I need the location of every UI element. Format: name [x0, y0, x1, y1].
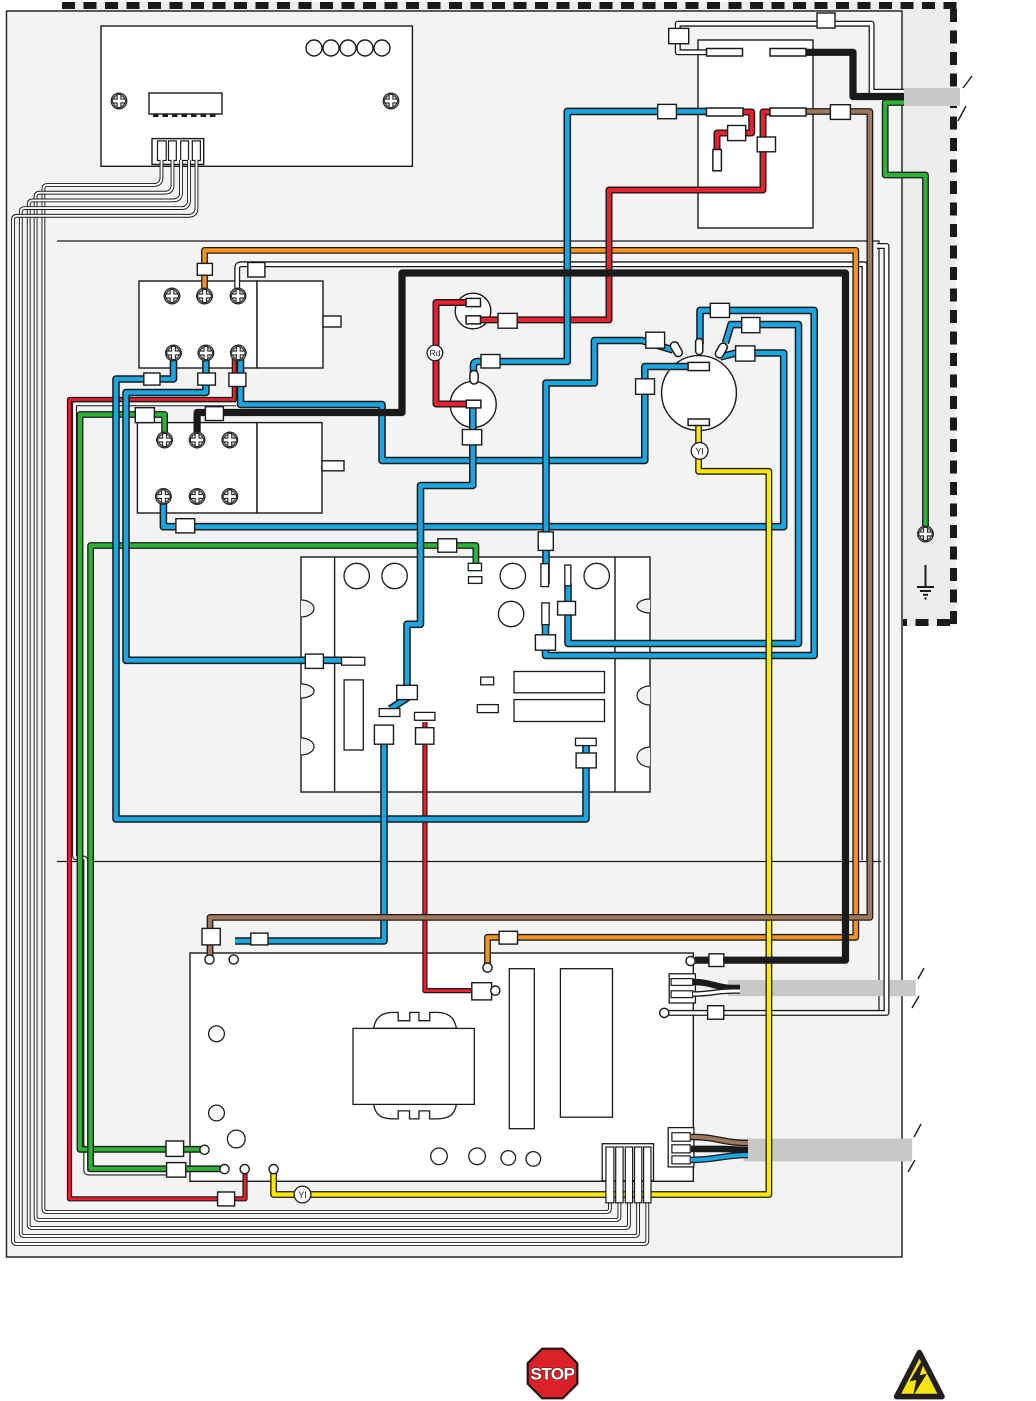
display connector J1 [149, 93, 222, 114]
wire black line cord to interlock [806, 52, 906, 96]
finger slot 2 [616, 1147, 623, 1203]
relay block K2 tab [322, 461, 344, 471]
finger slot 4 [635, 1147, 642, 1203]
pump left slot [466, 400, 481, 408]
conn box pump top blue [481, 355, 500, 369]
control board circles [149, 40, 390, 114]
conn box timer bottom right [576, 753, 596, 768]
conn box B3 [229, 373, 246, 387]
timer side slot b2 [342, 657, 365, 665]
screw K1 2 [197, 288, 213, 304]
conn box B5 upper [397, 685, 418, 699]
cable2 brown conductor [691, 1137, 748, 1143]
wire blue B1 relay K1 s1 to timer [116, 355, 586, 819]
conn box orange bottom [499, 931, 517, 944]
wire red R4 relay K1 to board [70, 356, 246, 1199]
conn box thermostat red [498, 313, 517, 328]
timer internal details [342, 563, 610, 750]
lightning bolt [910, 1361, 928, 1396]
timer hole 5 [498, 601, 523, 626]
conn box white WA [248, 263, 265, 278]
timer big rect 1 [514, 672, 605, 693]
terminal orange [483, 963, 492, 972]
board hole bottom 3 [501, 1151, 516, 1166]
motor slot left [688, 362, 709, 370]
cord break marks [958, 76, 972, 121]
cable2 gray body [743, 1139, 912, 1162]
conn box B7 [176, 519, 195, 533]
timer left slot blue [379, 709, 400, 717]
cable1 slot black [671, 979, 693, 986]
terminal green 1 [200, 1145, 209, 1154]
screw earth [918, 526, 934, 542]
conn box B6 motor [646, 332, 665, 348]
divider line 1 with right corner down [57, 241, 879, 1010]
wire blue W2 motor right lug top to timer [568, 325, 799, 644]
wire green earth cord to chassis screw [885, 103, 925, 532]
conn box B7 motor [736, 346, 755, 361]
wire white WB board neutral [668, 246, 887, 1013]
conn box green board 2 [167, 1163, 186, 1178]
timer hole 3 [500, 563, 525, 588]
transformer bottom arc [374, 1104, 457, 1119]
wire harness white 4 [21, 160, 638, 1236]
relay block K1 body [139, 281, 257, 368]
wire red R3 thermostat to pump [436, 303, 470, 405]
board terminal circles [200, 955, 695, 1174]
terminal red [240, 1165, 249, 1174]
board rect 1 [509, 969, 534, 1129]
screw K2 5 [189, 489, 205, 505]
timer green terminal b [469, 577, 482, 584]
conn box W1 top [817, 13, 835, 28]
connector boxes [135, 13, 850, 1206]
conn box B2 timer [305, 654, 323, 668]
conn box blue interlock [658, 104, 677, 118]
wire white left column [75, 404, 237, 1173]
finger slot 1 [606, 1147, 614, 1203]
cable2 slot black [672, 1145, 690, 1153]
interlock terminal slot 4 [770, 108, 806, 116]
conn box black board [709, 954, 724, 967]
relay block K2 body [137, 423, 257, 513]
transformer body [353, 1028, 474, 1104]
dashed border right [950, 9, 957, 626]
board connector J2 [152, 139, 204, 165]
board 5-slot connector body [602, 1144, 653, 1181]
conn box green timer [438, 539, 457, 552]
terminal red R5 [491, 986, 500, 995]
conn box B2 [198, 373, 216, 385]
wire blue B5a pump bottom to timer left [390, 404, 473, 709]
timer hole 4 [584, 563, 609, 588]
motor lug center [696, 339, 703, 355]
wire blue B7 relay K2 s1 to motor right lug [163, 353, 783, 527]
indicator circle 1 [306, 40, 322, 56]
timer slot v2 [565, 565, 571, 586]
motor lug right [714, 342, 729, 360]
board output connector cable2 [668, 1128, 694, 1167]
terminal green 2 [220, 1165, 229, 1174]
conn box B6 timer [538, 532, 553, 551]
timer green terminal a [468, 563, 481, 570]
timer T1 body [301, 557, 650, 792]
conn box B1 [144, 373, 160, 385]
screw board A1 left [111, 93, 127, 109]
screw K1 5 [198, 345, 214, 361]
interlock switch box S1 [698, 40, 813, 228]
conn box green K2 [135, 408, 154, 423]
indicator circle 5 [374, 40, 390, 56]
conn box W2 timer [558, 601, 576, 615]
timer small rect a [481, 677, 494, 685]
relay block K2 right section [257, 423, 322, 513]
wire black distribution board to relay K2 [197, 273, 845, 960]
dashed border bottom of right strip [903, 619, 950, 626]
cable2 slot blue [672, 1156, 690, 1164]
cable1 gray body [728, 980, 916, 996]
conn box B5 lower [374, 725, 393, 744]
wire brown interlock to board [210, 112, 870, 957]
timer left slot red [415, 712, 435, 720]
board output connector cable1 [669, 974, 695, 1003]
board hole bottom 4 [526, 1152, 541, 1167]
svg-text:YI: YI [298, 1190, 307, 1200]
power board internals [209, 969, 613, 1166]
finger slot 3 [625, 1147, 632, 1203]
conn box W1 left [669, 28, 689, 43]
wire green timer to board G3 [91, 546, 476, 1169]
svg-text:YI: YI [695, 446, 704, 456]
conn box brown [830, 105, 850, 120]
conn box red board bottom [218, 1192, 235, 1206]
conn box B5 bottom [251, 933, 268, 945]
cable2 blue conductor [691, 1155, 748, 1160]
wire harness white 2 [36, 160, 620, 1220]
wire blue W1 motor center lug to timer [546, 310, 815, 655]
conn box brown bottom [202, 928, 220, 945]
J1 comb teeth [153, 114, 216, 117]
conn box W1 motor [710, 303, 729, 317]
timer slot v3 [542, 603, 549, 625]
power board A2 [190, 953, 693, 1181]
svg-text:STOP: STOP [531, 1365, 575, 1384]
wire blue B2 relay K1 s2 to timer side [126, 355, 352, 660]
screw K2 3 [222, 432, 238, 448]
cable1 slot white [671, 991, 693, 998]
finger slot 5 [644, 1147, 651, 1203]
conn box red board [472, 983, 492, 1000]
conn box white board [708, 1006, 724, 1020]
terminal black [686, 956, 695, 965]
conn box B3 motor [636, 379, 655, 395]
screw K1 3 [230, 288, 246, 304]
cabinet top gray band [62, 2, 956, 12]
screw K2 6 [222, 489, 238, 505]
cable1 black conductor [693, 982, 740, 988]
wire orange relay K1 to board [205, 250, 856, 965]
wire yellow motor to board [274, 424, 769, 1195]
wire white mains W1 interlock to cord [678, 24, 906, 92]
wire green relay K2 to board G2 [80, 415, 201, 1150]
wire red R5 timer to board [425, 722, 491, 991]
thermostat slot upper [466, 298, 480, 306]
board rect 2 [560, 969, 612, 1117]
wire blue B5b timer left to board [235, 736, 384, 941]
transformer top arc [374, 1012, 457, 1028]
conn box W2 motor [742, 318, 760, 333]
screw K1 6 [231, 345, 247, 361]
timer slot v1 [541, 564, 549, 587]
timer tall rect [344, 680, 363, 750]
YI badge 2 [294, 1186, 311, 1203]
terminal blue B5 [229, 955, 238, 964]
motor M1 body [662, 356, 737, 431]
main panel [7, 11, 903, 1257]
drain pump P1 body [450, 381, 496, 427]
board hole left 1 [209, 1026, 225, 1042]
J2 pin slots [158, 141, 201, 161]
svg-text:Rd: Rd [429, 348, 440, 358]
wire blue B3 relay K1 s3 to motor [241, 355, 691, 461]
conn box R5 [416, 728, 434, 745]
dashed border top [62, 2, 958, 9]
screw K2 1 [157, 432, 173, 448]
pump top capsule lug [470, 371, 478, 385]
warning triangle [897, 1353, 942, 1397]
cable1 white conductor [693, 991, 740, 994]
timer small rect b [477, 705, 498, 713]
wire red R2 interlock to thermostat [478, 112, 770, 320]
board hole bottom 2 [469, 1148, 486, 1165]
cabinet right dashed gray strip [902, 2, 956, 626]
conn box W1 timer [535, 635, 555, 650]
timer hole 2 [382, 563, 407, 588]
motor lug left [669, 339, 729, 426]
interlock terminal slot 1 [707, 49, 807, 171]
conn box orange top [197, 263, 212, 275]
timer T1 left strip divider [334, 557, 336, 792]
conn box red R2 [757, 137, 775, 152]
Rd badge [427, 345, 443, 361]
stop sign [528, 1349, 578, 1399]
board hole left 3 [227, 1130, 245, 1148]
thermostat TH1 body [455, 293, 491, 329]
indicator circle 4 [357, 40, 373, 56]
relay block K1 tab [323, 316, 341, 327]
screw K2 4 [156, 489, 172, 505]
conn box green board 1 [166, 1141, 184, 1156]
ground symbol [917, 565, 934, 595]
terminal brown [205, 955, 214, 964]
wire harness white 5 [13, 160, 647, 1244]
indicator circle 2 [323, 40, 339, 56]
conn box black K2 [205, 407, 223, 421]
wire harness white 3 [29, 160, 629, 1228]
screw K1 1 [164, 288, 180, 304]
interlock terminal slot 3 [707, 108, 744, 116]
YI badge 1 [691, 443, 708, 460]
wire white WA thermostat feed [237, 264, 864, 860]
board hole bottom 1 [431, 1148, 448, 1165]
divider line 2 [57, 861, 881, 863]
timer bottom-right slot [576, 738, 597, 745]
screw K1 4 [166, 345, 182, 361]
control board A1 [101, 26, 412, 166]
screw board A1 right [383, 93, 399, 109]
motor slot bottom [688, 419, 709, 426]
indicator circle 3 [340, 40, 356, 56]
wire red R1 interlock loop to fuse [717, 112, 752, 152]
relay block K1 right section [257, 281, 323, 368]
wire harness white 1 [43, 160, 610, 1212]
interlock terminal slot 2 [770, 49, 806, 57]
terminal white WB [660, 1008, 669, 1017]
interlock fuse slot [713, 150, 722, 171]
board hole left 2 [209, 1105, 225, 1121]
wire blue B4 pump top to interlock [474, 111, 709, 375]
screw K2 2 [189, 432, 205, 448]
conn box red R1 [728, 126, 746, 141]
wire blue B6 timer top to motor left lug [546, 341, 673, 585]
timer hole 1 [344, 563, 369, 588]
thermostat slot lower [466, 316, 480, 324]
cable2 black conductor [691, 1149, 748, 1150]
timer right edge arc cutouts [637, 599, 650, 613]
gray power cord top [904, 88, 960, 106]
timer T1 right strip divider [614, 557, 616, 792]
timer left edge arc cutouts [301, 600, 314, 617]
timer big rect 2 [514, 700, 605, 722]
terminal yellow [269, 1165, 278, 1174]
conn box pump bottom [462, 430, 481, 445]
cable2 slot brown [672, 1133, 690, 1142]
